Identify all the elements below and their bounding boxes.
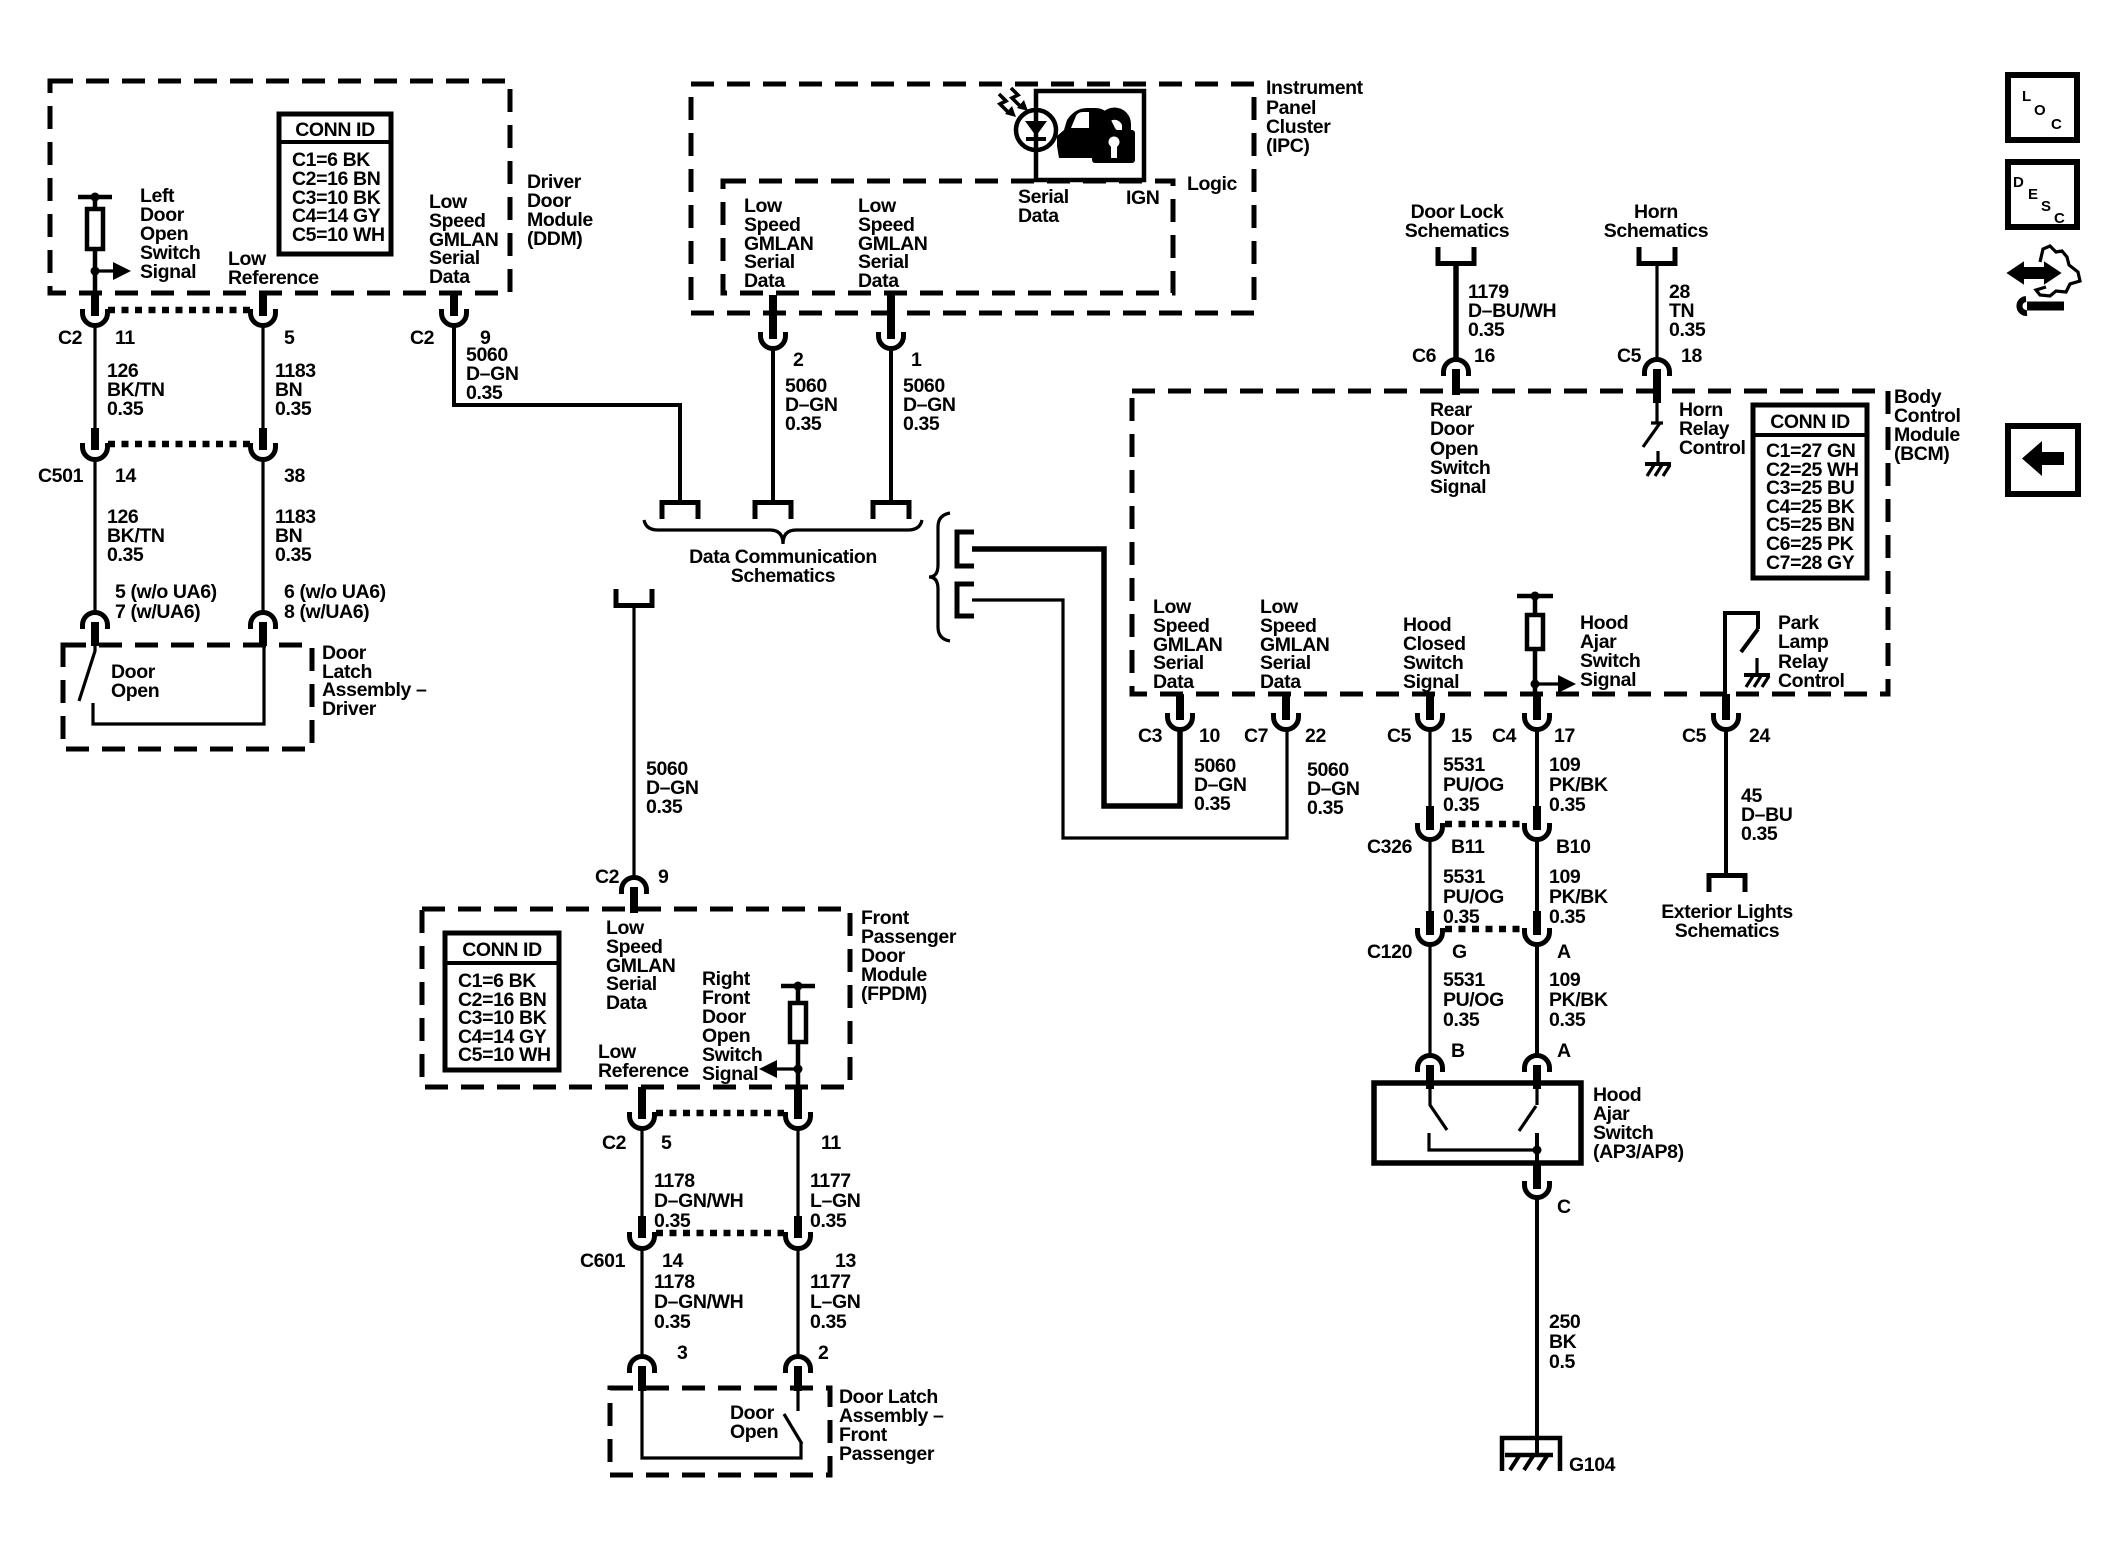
svg-text:B11: B11 (1451, 836, 1485, 858)
label 5531 PU/OG 0.35 (2) (1443, 866, 1504, 928)
svg-text:1178: 1178 (654, 1271, 695, 1293)
svg-text:(BCM): (BCM) (1894, 443, 1949, 465)
svg-text:Signal: Signal (1580, 669, 1636, 691)
label 1178 D-GN/WH 0.35 (2) (654, 1271, 743, 1333)
label: Serial Data (icon) (1018, 186, 1069, 227)
label: Low Reference (FPDM) (598, 1041, 689, 1082)
connector pin 1 (IPC) (879, 295, 904, 349)
labels C4 17 (1492, 725, 1575, 747)
svg-text:109: 109 (1549, 969, 1581, 991)
resistor: right door open switch (FPDM) (781, 982, 815, 1088)
svg-text:C501: C501 (38, 465, 84, 487)
connector link C2 (FPDM) (656, 1110, 784, 1117)
wire 109 (2) (1535, 839, 1539, 917)
module box BCM (1132, 391, 1888, 694)
label 1177 L-GN 0.35 (2) (810, 1271, 860, 1333)
logic box (723, 181, 1173, 293)
terminal (to BCM C3) (957, 532, 974, 566)
photodiode (security indicator) (1016, 110, 1056, 150)
svg-text:Lamp: Lamp (1778, 631, 1829, 653)
svg-text:0.35: 0.35 (1549, 794, 1586, 816)
wire to BCM C3/10 (972, 549, 1180, 806)
labels C5 15 (1387, 725, 1472, 747)
label: Driver Door Module (DDM) (527, 171, 593, 250)
wire 1183 BN lower (261, 459, 264, 613)
label 1179 D-BU/WH 0.35 (1468, 281, 1556, 341)
svg-text:Open: Open (111, 680, 159, 702)
labels C2 9 (410, 327, 491, 349)
svg-text:16: 16 (1474, 345, 1495, 367)
svg-text:0.35: 0.35 (785, 413, 822, 435)
connector C2 pin 5 (FPDM) (630, 1087, 655, 1129)
switch: door open (passenger latch) (642, 1391, 802, 1458)
CONN ID table (BCM) (1753, 405, 1867, 578)
label 5531 PU/OG 0.35 (1) (1443, 754, 1504, 816)
connector C2 pin 5 (DDM) (251, 292, 276, 326)
svg-text:8 (w/UA6): 8 (w/UA6) (284, 601, 369, 623)
label: Door Lock Schematics (1405, 201, 1510, 242)
svg-text:11: 11 (115, 327, 135, 349)
svg-text:C326: C326 (1367, 836, 1413, 858)
wire 5060 from pin 1 (889, 348, 893, 500)
svg-text:6 (w/o UA6): 6 (w/o UA6) (284, 581, 386, 603)
svg-text:B10: B10 (1556, 836, 1591, 858)
connector pin A (hood ajar switch) (1525, 1056, 1550, 1090)
latch connector right (251, 613, 276, 647)
module box IPC (691, 84, 1254, 313)
connector C2 pin 11 (FPDM) (786, 1087, 811, 1129)
wire 5531 (3) (1428, 944, 1431, 1058)
wire 5531 (1) (1428, 729, 1431, 812)
svg-text:0.35: 0.35 (275, 544, 312, 566)
svg-text:PU/OG: PU/OG (1443, 989, 1504, 1011)
wire 1177 upper (796, 1128, 799, 1218)
labels C5 24 (1682, 725, 1770, 747)
label: Park Lamp Relay Control (1778, 612, 1845, 692)
connector C7 pin 22 (1274, 694, 1299, 730)
svg-text:0.35: 0.35 (903, 413, 940, 435)
connector link C120 (1445, 926, 1523, 933)
svg-text:Data: Data (858, 270, 899, 292)
connector C120 pin G (1418, 911, 1443, 945)
wire 5060 from pin 2 (771, 348, 775, 500)
svg-text:A: A (1557, 1040, 1571, 1062)
resistor: hood ajar (in BCM) (1517, 592, 1553, 695)
latch connector pin 3 (630, 1357, 655, 1392)
svg-text:17: 17 (1554, 725, 1575, 747)
label: Data Communication Schematics (689, 546, 877, 587)
svg-text:Data: Data (606, 992, 647, 1014)
labels C601 14 13 (580, 1250, 856, 1272)
svg-text:D–GN/WH: D–GN/WH (654, 1291, 743, 1313)
terminal (from IPC 2) (755, 503, 791, 520)
svg-text:Logic: Logic (1187, 173, 1238, 195)
svg-text:O: O (2034, 102, 2046, 119)
label: Exterior Lights Schematics (1661, 901, 1793, 942)
labels C3 10 (1138, 725, 1220, 747)
svg-text:5 (w/o UA6): 5 (w/o UA6) (115, 581, 217, 603)
svg-text:C5=10 WH: C5=10 WH (458, 1044, 551, 1066)
svg-text:0.35: 0.35 (1741, 823, 1778, 845)
label: Door Open (111, 661, 159, 702)
labels C2 9 (FPDM) (595, 866, 669, 888)
terminal (from IPC 1) (873, 503, 909, 520)
svg-text:5: 5 (661, 1132, 672, 1154)
svg-text:PK/BK: PK/BK (1549, 989, 1608, 1011)
svg-text:IGN: IGN (1126, 187, 1159, 209)
label 1178 D-GN/WH 0.35 (654, 1170, 743, 1232)
svg-text:10: 10 (1199, 725, 1220, 747)
label: Hood Closed Switch Signal (1403, 614, 1466, 693)
svg-text:C2: C2 (410, 327, 435, 349)
labels C2 5 11 (602, 1132, 841, 1154)
svg-text:0.35: 0.35 (1307, 797, 1344, 819)
svg-text:5: 5 (284, 327, 295, 349)
svg-text:S: S (2041, 198, 2051, 215)
svg-text:Signal: Signal (140, 261, 196, 283)
wire 45 D-BU (1724, 729, 1728, 873)
label: Low Reference (228, 248, 319, 289)
junction + hood ajar arrow (1531, 675, 1577, 693)
label 109 PK/BK 0.35 (1) (1549, 754, 1608, 816)
svg-text:Schematics: Schematics (1675, 920, 1780, 942)
svg-text:109: 109 (1549, 866, 1581, 888)
label: Door Latch Assembly - Front Passenger (839, 1386, 944, 1465)
svg-text:13: 13 (835, 1250, 856, 1272)
svg-text:0.35: 0.35 (107, 398, 144, 420)
svg-text:Schematics: Schematics (731, 565, 836, 587)
ground G104 (1502, 1438, 1560, 1471)
wire 109 (1) (1535, 729, 1539, 812)
svg-text:L: L (2022, 88, 2031, 105)
svg-text:0.35: 0.35 (810, 1311, 847, 1333)
svg-text:250: 250 (1549, 1311, 1581, 1333)
label 5060 D-GN 0.35 (FPDM feed) (646, 758, 699, 818)
svg-text:2: 2 (818, 1342, 829, 1364)
svg-text:18: 18 (1681, 345, 1702, 367)
svg-text:1177: 1177 (810, 1271, 851, 1293)
svg-text:0.35: 0.35 (654, 1210, 691, 1232)
connector C5 pin 15 (1418, 694, 1443, 730)
label: Hood Ajar Switch Signal (1580, 612, 1640, 691)
svg-text:C3: C3 (1138, 725, 1163, 747)
label 28 TN 0.35 (1669, 281, 1706, 341)
label: Instrument Panel Cluster (IPC) (1266, 77, 1364, 157)
connector C326 pin B10 (1525, 806, 1550, 840)
pin labels 5/7 (115, 581, 217, 623)
svg-text:CONN ID: CONN ID (462, 939, 542, 961)
wire to BCM C7/22 (972, 600, 1287, 838)
svg-text:C5: C5 (1617, 345, 1642, 367)
icon: jump arrows + wrench (2010, 246, 2080, 313)
svg-text:1: 1 (911, 349, 922, 371)
svg-text:5531: 5531 (1443, 969, 1485, 991)
junction + signal arrow (91, 262, 132, 280)
svg-text:Driver: Driver (322, 698, 377, 720)
svg-text:0.35: 0.35 (466, 382, 503, 404)
switch: horn relay control (1643, 403, 1671, 476)
label: Low Speed GMLAN Serial Data (BCM 2) (1260, 596, 1330, 693)
svg-text:0.35: 0.35 (1443, 906, 1480, 928)
svg-text:L–GN: L–GN (810, 1190, 860, 1212)
connector C120 pin A (1525, 911, 1550, 945)
connector C2 pin 11 (DDM) (83, 292, 108, 326)
pin labels 3 2 (677, 1342, 829, 1364)
label: Door Latch Assembly - Driver (322, 642, 427, 720)
connector C5 pin 24 (1714, 694, 1739, 730)
brace: data communication (644, 520, 922, 544)
labels C120 G A (1367, 941, 1571, 963)
terminal (door lock) (1438, 247, 1474, 264)
labels C7 22 (1244, 725, 1326, 747)
svg-text:PK/BK: PK/BK (1549, 774, 1608, 796)
connector link C501 (108, 441, 250, 448)
label 5060 D-GN 0.35 (pin1) (903, 375, 956, 435)
svg-text:Reference: Reference (228, 267, 319, 289)
svg-text:L–GN: L–GN (810, 1291, 860, 1313)
connector C5 pin 18 (1645, 360, 1670, 404)
label 109 PK/BK 0.35 (2) (1549, 866, 1608, 928)
svg-text:22: 22 (1305, 725, 1326, 747)
svg-text:C: C (2054, 210, 2065, 227)
svg-text:CONN ID: CONN ID (295, 119, 375, 141)
connector link C326 (1445, 821, 1523, 828)
svg-text:D: D (2013, 174, 2024, 191)
connector C326 pin B11 (1418, 806, 1443, 840)
svg-text:0.35: 0.35 (1443, 794, 1480, 816)
svg-text:Data: Data (429, 266, 470, 288)
label 5060 D-GN 0.35 (DDM) (466, 344, 519, 404)
label 45 D-BU 0.35 (1741, 785, 1793, 845)
wire 5060 to FPDM (632, 608, 635, 880)
label: Door Open (passenger) (730, 1402, 778, 1443)
label: Low Speed GMLAN Serial Data (BCM 1) (1153, 596, 1223, 693)
label 250 BK 0.5 (1549, 1311, 1581, 1373)
svg-text:C2: C2 (595, 866, 620, 888)
label: Right Front Door Open Switch Signal (702, 968, 762, 1085)
svg-text:0.35: 0.35 (1669, 319, 1706, 341)
svg-text:C601: C601 (580, 1250, 626, 1272)
svg-text:Schematics: Schematics (1604, 220, 1709, 242)
svg-text:(FPDM): (FPDM) (861, 983, 927, 1005)
connector link C601 (656, 1230, 784, 1237)
box: hood ajar switch (1374, 1083, 1581, 1163)
svg-text:7 (w/UA6): 7 (w/UA6) (115, 601, 200, 623)
label 109 PK/BK 0.35 (3) (1549, 969, 1608, 1031)
label 1183 BN 0.35 (2) (275, 506, 316, 566)
junction + signal arrow (FPDM) (759, 1060, 803, 1078)
svg-text:0.35: 0.35 (107, 544, 144, 566)
label: Front Passenger Door Module (FPDM) (861, 907, 957, 1005)
label: Body Control Module (BCM) (1894, 386, 1961, 465)
svg-text:38: 38 (284, 465, 305, 487)
box: Door Latch Assembly Driver (63, 645, 312, 749)
svg-text:C2: C2 (58, 327, 83, 349)
switch: park lamp relay control (1725, 613, 1770, 694)
svg-text:E: E (2028, 186, 2038, 203)
wire 1178 upper (640, 1128, 643, 1218)
svg-text:0.35: 0.35 (810, 1210, 847, 1232)
svg-text:C5: C5 (1682, 725, 1707, 747)
terminal (to FPDM) (616, 589, 652, 606)
connector C501 pin 14 (83, 428, 108, 460)
wire 1183 BN upper (261, 325, 264, 430)
svg-text:109: 109 (1549, 754, 1581, 776)
wire 109 (3) (1535, 944, 1539, 1058)
labels C6 16 (1412, 345, 1495, 367)
connector C3 pin 10 (1168, 694, 1193, 730)
svg-text:(DDM): (DDM) (527, 228, 582, 250)
module box DDM (50, 81, 510, 293)
svg-text:0.35: 0.35 (654, 1311, 691, 1333)
svg-text:0.35: 0.35 (1443, 1009, 1480, 1031)
svg-text:Signal: Signal (702, 1063, 758, 1085)
wire 126 BK/TN lower (93, 459, 96, 613)
terminal (to BCM C7) (957, 584, 974, 616)
svg-text:Control: Control (1679, 437, 1746, 459)
label: Left Door Open Switch Signal (140, 185, 200, 283)
svg-text:24: 24 (1749, 725, 1770, 747)
svg-text:C6: C6 (1412, 345, 1437, 367)
terminal (from DDM) (662, 503, 698, 520)
wire 1179 (1453, 266, 1459, 360)
labels 2 1 (793, 349, 922, 371)
svg-text:0.35: 0.35 (646, 796, 683, 818)
svg-text:0.5: 0.5 (1549, 1351, 1575, 1373)
label: Low Speed GMLAN Serial Data (IPC 1) (744, 195, 814, 292)
svg-text:Reference: Reference (598, 1060, 689, 1082)
svg-text:(IPC): (IPC) (1266, 135, 1310, 157)
icon LOC (2008, 75, 2077, 140)
label: Low Speed GMLAN Serial Data (DDM) (429, 191, 499, 288)
label: Hood Ajar Switch (AP3/AP8) (1593, 1084, 1684, 1163)
label: Horn Schematics (1604, 201, 1709, 242)
svg-text:C5: C5 (1387, 725, 1412, 747)
svg-text:3: 3 (677, 1342, 688, 1364)
svg-text:Data: Data (1260, 671, 1301, 693)
svg-text:D–GN/WH: D–GN/WH (654, 1190, 743, 1212)
svg-text:C7=28 GY: C7=28 GY (1766, 552, 1855, 574)
svg-text:5531: 5531 (1443, 866, 1485, 888)
wire 5060 D-GN from DDM (454, 325, 680, 500)
label 5060 D-GN 0.35 (pin2) (785, 375, 838, 435)
connector C6 pin 16 (1444, 360, 1469, 396)
CONN ID table (DDM) (279, 114, 391, 254)
label 5531 PU/OG 0.35 (3) (1443, 969, 1504, 1031)
module box FPDM (422, 909, 850, 1087)
connector pin C (1525, 1163, 1550, 1198)
wire 250 BK (1535, 1197, 1539, 1454)
wire 126 BK/TN upper (93, 325, 96, 430)
label 5060 D-GN 0.35 (C7) (1307, 759, 1360, 819)
label 1183 BN 0.35 (275, 360, 316, 420)
svg-text:C: C (1557, 1196, 1571, 1218)
resistor: left door open switch sense (in DDM) (78, 193, 112, 293)
svg-text:15: 15 (1451, 725, 1472, 747)
svg-text:Open: Open (730, 1421, 778, 1443)
svg-text:A: A (1557, 941, 1571, 963)
svg-text:G104: G104 (1569, 1454, 1616, 1476)
svg-text:Data: Data (1018, 205, 1059, 227)
svg-text:C4: C4 (1492, 725, 1517, 747)
svg-text:(AP3/AP8): (AP3/AP8) (1593, 1141, 1684, 1163)
switch blades (hood ajar) (1429, 1089, 1542, 1163)
box: Door Latch Assembly Front Passenger (610, 1388, 830, 1475)
labels C326 B11 B10 (1367, 836, 1591, 858)
terminal (exterior lights) (1709, 876, 1745, 893)
latch connector left (83, 613, 108, 647)
svg-text:G: G (1452, 941, 1467, 963)
svg-text:Data: Data (744, 270, 785, 292)
label: Low Speed GMLAN Serial Data (FPDM) (606, 917, 676, 1014)
label 5060 D-GN 0.35 (C3) (1194, 755, 1247, 815)
labels C2 11 5 (58, 327, 295, 349)
wire 1177 lower (796, 1248, 799, 1358)
svg-text:C5=10 WH: C5=10 WH (292, 224, 385, 246)
label: Horn Relay Control (1679, 399, 1746, 459)
connector C2 pin 9 (FPDM) (622, 878, 647, 914)
svg-text:B: B (1451, 1040, 1465, 1062)
light arrows (999, 88, 1028, 117)
svg-text:0.35: 0.35 (1194, 793, 1231, 815)
connector link C2 (108, 307, 250, 314)
label: Rear Door Open Switch Signal (1430, 399, 1490, 498)
labels B A (1451, 1040, 1571, 1062)
connector C4 pin 17 (1525, 694, 1550, 730)
brace: BCM side (929, 513, 950, 641)
labels C5 18 (1617, 345, 1702, 367)
svg-text:5531: 5531 (1443, 754, 1485, 776)
svg-text:Instrument: Instrument (1266, 77, 1364, 99)
svg-text:C7: C7 (1244, 725, 1268, 747)
svg-text:BK: BK (1549, 1331, 1577, 1353)
label 1177 L-GN 0.35 (810, 1170, 860, 1232)
svg-text:Signal: Signal (1403, 671, 1459, 693)
svg-text:0.35: 0.35 (1468, 319, 1505, 341)
svg-text:Signal: Signal (1430, 476, 1486, 498)
svg-text:C2: C2 (602, 1132, 627, 1154)
connector C601 pin 14 (630, 1216, 655, 1249)
connector pin 2 (IPC) (761, 295, 786, 349)
svg-text:11: 11 (821, 1132, 841, 1154)
svg-text:Control: Control (1778, 670, 1845, 692)
svg-text:1177: 1177 (810, 1170, 851, 1192)
svg-text:PU/OG: PU/OG (1443, 886, 1504, 908)
svg-text:PU/OG: PU/OG (1443, 774, 1504, 796)
svg-text:Schematics: Schematics (1405, 220, 1510, 242)
svg-text:1178: 1178 (654, 1170, 695, 1192)
wire 28 TN (1655, 266, 1658, 360)
svg-text:2: 2 (793, 349, 804, 371)
svg-text:Door: Door (1430, 418, 1475, 440)
terminal (horn) (1639, 247, 1675, 264)
connector C2 pin 9 (DDM) (442, 292, 467, 326)
connector pin B (hood ajar switch) (1418, 1056, 1443, 1090)
connector C501 pin 38 (251, 428, 276, 460)
switch: door open (driver latch) (79, 646, 264, 724)
pin labels 6/8 (284, 581, 386, 623)
svg-text:Data: Data (1153, 671, 1194, 693)
connector C601 pin 13 (786, 1216, 811, 1249)
svg-text:0.35: 0.35 (1549, 906, 1586, 928)
svg-text:Passenger: Passenger (839, 1443, 935, 1465)
labels C501 14 38 (38, 465, 305, 487)
indicator icon box (1036, 91, 1144, 180)
car + lock icon (1057, 108, 1135, 163)
wire 5531 (2) (1428, 839, 1431, 917)
svg-text:PK/BK: PK/BK (1549, 886, 1608, 908)
svg-text:14: 14 (662, 1250, 683, 1272)
